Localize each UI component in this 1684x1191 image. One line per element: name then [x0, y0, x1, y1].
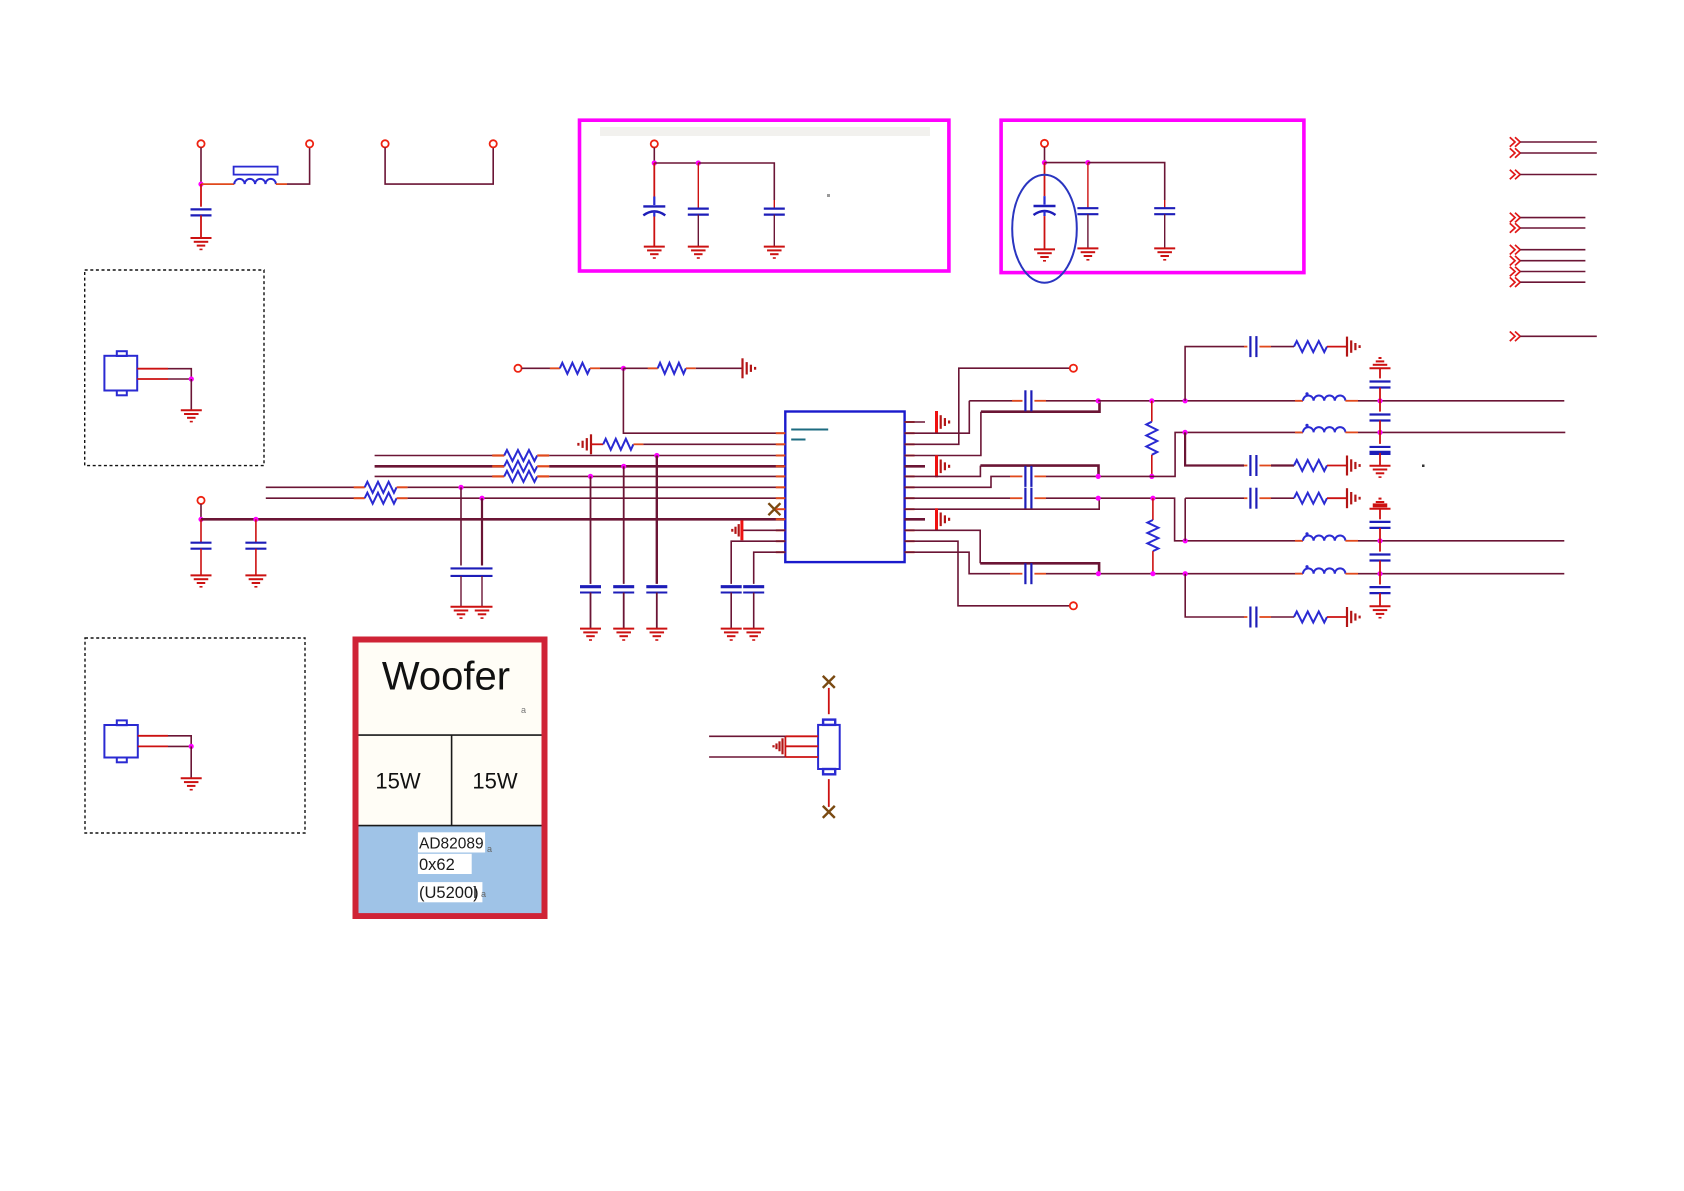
capacitor CB3	[1370, 586, 1391, 588]
IC label line	[791, 439, 805, 441]
ground	[646, 628, 667, 630]
chassis ground	[741, 358, 743, 378]
wire	[1520, 249, 1585, 251]
wire	[375, 475, 505, 477]
wire	[643, 443, 785, 445]
chassis ground	[935, 455, 938, 477]
node junction	[1377, 430, 1382, 435]
capacitor CA2	[1370, 413, 1391, 415]
wire	[905, 498, 1100, 509]
wire	[1088, 163, 1165, 200]
wire	[742, 529, 785, 531]
load resistor RB lead	[1152, 498, 1154, 520]
resistor R2	[648, 367, 658, 369]
wire	[375, 465, 505, 468]
lead	[1034, 400, 1046, 402]
no-connect X	[823, 806, 835, 818]
bootstrap capacitor CB-	[1024, 563, 1026, 584]
lead	[1327, 616, 1347, 618]
ground	[451, 606, 472, 608]
lead	[1327, 497, 1347, 499]
svg-text:(U5200): (U5200)	[419, 884, 479, 902]
ground	[644, 246, 665, 248]
wire	[1046, 475, 1098, 477]
wire OUTA+ node	[1098, 400, 1303, 402]
wire	[709, 735, 785, 737]
wire	[905, 497, 1010, 499]
wire	[623, 367, 657, 369]
wire	[266, 497, 365, 499]
snubber capacitor	[1249, 336, 1251, 357]
inductor LA-	[1303, 427, 1345, 432]
wire	[905, 368, 1070, 444]
wire	[190, 746, 192, 778]
wire	[1271, 497, 1294, 499]
bootstrap capacitor CB- lead	[1010, 573, 1022, 575]
wire	[773, 215, 775, 247]
inductor LA- lead	[1295, 431, 1303, 433]
lead	[1152, 551, 1154, 574]
wire	[1358, 573, 1564, 575]
chassis ground	[1346, 337, 1348, 357]
wire	[623, 368, 785, 433]
resistor R8	[354, 497, 365, 499]
snubber cap lead	[1244, 346, 1247, 348]
wire	[905, 530, 981, 563]
chassis ground	[590, 434, 592, 454]
wire	[1520, 281, 1585, 283]
wire	[1087, 214, 1089, 248]
table line	[451, 735, 453, 826]
node junction	[1183, 571, 1188, 576]
node junction OUTB-	[1096, 571, 1101, 576]
connector enclosure (dashed)	[85, 270, 264, 466]
svg-text:15W: 15W	[375, 769, 420, 794]
ground	[181, 777, 202, 779]
wire	[287, 147, 310, 184]
wire OUTB+ node	[1098, 498, 1303, 541]
snubber capacitor	[1249, 455, 1251, 476]
wire	[1046, 573, 1098, 575]
wire	[656, 593, 658, 629]
snubber capacitor	[1249, 488, 1251, 509]
svg-text:0x62: 0x62	[419, 856, 455, 874]
off-page connector chevron	[1510, 267, 1515, 277]
lead	[1345, 400, 1358, 402]
wire	[1271, 616, 1294, 618]
bootstrap capacitor lead	[1010, 475, 1022, 477]
wire	[549, 455, 785, 457]
no-connect X	[768, 503, 780, 515]
node junction	[696, 160, 701, 165]
ground	[721, 628, 742, 630]
capacitor C10	[451, 567, 472, 569]
node junction	[1377, 571, 1382, 576]
wire	[1520, 335, 1597, 337]
wire	[1044, 147, 1046, 163]
terminal P1	[197, 140, 204, 147]
wire	[1379, 574, 1381, 585]
ground	[1077, 247, 1098, 249]
wire	[653, 211, 655, 217]
wire	[1358, 540, 1564, 542]
wire	[1520, 217, 1585, 219]
node junction	[1377, 398, 1382, 403]
wire	[408, 497, 786, 499]
inductor LA+	[1303, 395, 1345, 400]
snubber resistor	[1294, 341, 1327, 352]
resistor R1	[550, 367, 560, 369]
capacitor CB2	[1370, 553, 1391, 555]
wire	[481, 498, 483, 565]
lead	[1151, 455, 1153, 477]
wire	[1379, 401, 1381, 412]
lead	[1259, 346, 1271, 348]
capacitor C2 (polarized) lead	[653, 163, 655, 197]
capacitor C6	[1077, 207, 1098, 209]
snubber resistor	[1294, 460, 1327, 471]
wire	[905, 465, 925, 468]
wire	[905, 476, 1010, 487]
capacitor C6 lead	[1087, 163, 1089, 209]
capacitor C5 plus plate	[1034, 205, 1056, 207]
resistor R4	[492, 454, 504, 456]
svg-text:AD82089: AD82089	[419, 835, 484, 852]
off-page connector chevron	[1510, 213, 1515, 223]
terminal P6	[1041, 140, 1048, 147]
ground	[688, 246, 709, 248]
pin wire	[138, 735, 168, 737]
wire	[1520, 271, 1585, 273]
inductor LB+	[1303, 536, 1345, 541]
wire	[1379, 593, 1381, 606]
capacitor	[580, 585, 601, 588]
wire	[1379, 541, 1381, 552]
ground	[580, 628, 601, 630]
wire	[590, 476, 592, 584]
ground	[191, 574, 212, 576]
capacitor C7	[1154, 207, 1175, 209]
ground	[472, 606, 493, 608]
node junction	[189, 376, 194, 381]
wire	[481, 576, 483, 607]
connector J1 body	[104, 356, 137, 391]
wire	[1046, 400, 1098, 402]
wire	[656, 456, 658, 584]
connector J2 body	[104, 725, 137, 758]
chassis ground	[1346, 488, 1348, 508]
pin wire	[785, 735, 818, 737]
wire OUTA-	[980, 466, 1098, 477]
power bus wire	[201, 518, 785, 521]
IC right pin stubs	[905, 421, 915, 423]
wire OUTA+	[981, 401, 1100, 412]
node junction	[652, 160, 657, 165]
wire	[1520, 260, 1585, 262]
wire	[905, 552, 1010, 574]
resistor R3	[603, 439, 633, 450]
off-page connector chevron	[1510, 137, 1515, 147]
wire	[1379, 368, 1381, 378]
wire	[697, 215, 699, 247]
ground	[1154, 247, 1175, 249]
pin wire	[137, 378, 168, 380]
wire	[654, 162, 698, 164]
terminal P9	[1070, 365, 1077, 372]
node junction	[1042, 160, 1047, 165]
node junction	[458, 485, 463, 490]
node junction	[198, 517, 203, 522]
snubber resistor	[1294, 612, 1327, 623]
snubber cap lead	[1244, 497, 1247, 499]
chassis ground	[935, 411, 938, 433]
wire	[623, 466, 625, 584]
lead	[1259, 616, 1271, 618]
wire	[696, 367, 743, 369]
wire	[905, 412, 981, 456]
wire	[905, 541, 1070, 606]
node junction	[1150, 571, 1155, 576]
pin wire	[138, 745, 168, 747]
lead	[1345, 431, 1358, 433]
load resistor RA	[1146, 422, 1157, 455]
wire	[460, 487, 462, 565]
wire	[653, 148, 655, 164]
wire	[255, 549, 257, 576]
chassis ground up (polarized)	[1370, 508, 1391, 510]
inductor LB-	[1303, 568, 1345, 573]
chassis ground	[1346, 607, 1348, 627]
node junction	[654, 453, 659, 458]
snubber cap lead	[1244, 616, 1247, 618]
pin wire	[785, 745, 818, 747]
off-page connector chevron	[1510, 332, 1515, 342]
wire	[385, 147, 493, 184]
load resistor RB	[1147, 520, 1158, 551]
bootstrap capacitor CA-	[1024, 466, 1026, 487]
snubber capacitor	[1249, 607, 1251, 628]
wire	[905, 421, 925, 423]
node junction	[1183, 398, 1188, 403]
label 0x62	[418, 854, 472, 874]
ground	[245, 574, 266, 576]
terminal P4	[490, 140, 497, 147]
off-page connector chevron	[1510, 170, 1515, 180]
wire	[168, 736, 191, 747]
table line	[359, 825, 542, 827]
mark	[474, 886, 476, 898]
terminal P7	[514, 365, 521, 372]
faint watermark text	[600, 127, 930, 136]
wire	[600, 367, 623, 369]
bootstrap capacitor CB+	[1024, 488, 1026, 509]
ground	[764, 246, 785, 248]
snubber wire	[1185, 497, 1244, 499]
wire	[549, 475, 785, 477]
wire	[1358, 431, 1565, 433]
wire	[168, 378, 191, 380]
wire	[200, 504, 202, 519]
chassis ground	[781, 738, 783, 754]
lead	[1345, 573, 1358, 575]
node junction	[198, 182, 203, 187]
ground	[1370, 465, 1391, 467]
wire	[1520, 174, 1597, 176]
highlight box (magenta)	[1001, 120, 1304, 272]
capacitor C1	[191, 208, 212, 210]
capacitor C13	[743, 585, 764, 588]
IC label line	[791, 429, 828, 431]
table line	[359, 734, 542, 736]
highlight box (magenta)	[580, 120, 949, 271]
wire	[731, 541, 785, 584]
inductor L1 body box	[234, 167, 278, 175]
speck	[827, 194, 830, 197]
terminal P8	[197, 497, 204, 504]
wire	[828, 779, 830, 807]
resistor R5	[492, 465, 504, 467]
capacitor C4 lead	[773, 200, 775, 209]
node junction	[479, 496, 484, 501]
woofer info table	[356, 640, 545, 917]
capacitor CA1	[1370, 380, 1391, 382]
node junction	[1149, 474, 1154, 479]
wire	[1379, 453, 1381, 466]
node junction	[621, 464, 626, 469]
bootstrap capacitor CA+	[1024, 390, 1026, 411]
capacitor C9 lead	[255, 519, 257, 542]
wire	[266, 486, 365, 488]
snubber wire	[1185, 347, 1244, 401]
capacitor C8 lead	[200, 519, 202, 542]
chassis ground	[935, 508, 938, 530]
pin wire	[785, 756, 818, 758]
lead	[1345, 540, 1358, 542]
capacitor C2 plus plate	[643, 205, 665, 207]
snubber wire	[1185, 432, 1244, 465]
wire	[460, 576, 462, 607]
terminal P5	[651, 140, 658, 147]
IC U5200 body	[785, 412, 904, 563]
capacitor C11	[472, 567, 493, 569]
wire	[1379, 432, 1381, 444]
wire	[709, 756, 785, 758]
node junction	[1149, 398, 1154, 403]
wire	[1358, 400, 1564, 402]
off-page connector chevron	[1510, 148, 1515, 158]
wire	[1043, 211, 1045, 217]
wire OUTB- node	[1098, 573, 1303, 575]
wire	[1379, 421, 1381, 433]
terminal P2	[306, 140, 313, 147]
wire OUTA- node	[1098, 432, 1303, 476]
lead	[1259, 465, 1271, 467]
resistor R7	[354, 486, 365, 488]
node junction	[621, 366, 626, 371]
wire	[168, 745, 191, 747]
lead	[1259, 497, 1271, 499]
capacitor C1 lead	[200, 184, 202, 207]
wire	[375, 455, 505, 457]
bootstrap capacitor CA+ lead	[969, 400, 1022, 402]
label AD82089	[418, 832, 485, 852]
wire	[1520, 152, 1597, 154]
ground	[191, 237, 212, 239]
wire	[698, 163, 774, 200]
no-connect X	[823, 676, 835, 688]
capacitor C7 lead	[1164, 200, 1166, 208]
wire	[1520, 227, 1585, 229]
snubber wire	[1185, 574, 1244, 617]
wire	[1046, 497, 1098, 499]
capacitor C3 lead	[697, 163, 699, 209]
node junction	[1183, 430, 1188, 435]
terminal P3	[382, 140, 389, 147]
wire	[753, 593, 755, 629]
wire	[1271, 346, 1294, 348]
inductor LB- lead	[1295, 573, 1303, 575]
ground	[613, 628, 634, 630]
resistor R6	[492, 475, 504, 477]
wire OUTB-	[980, 563, 1099, 573]
chassis ground	[1346, 456, 1348, 476]
wire	[1271, 464, 1294, 466]
node junction	[1183, 538, 1188, 543]
lead	[1034, 497, 1046, 499]
off-page connector chevron	[1510, 245, 1515, 255]
wire	[200, 549, 202, 576]
ground	[1370, 605, 1391, 607]
svg-text:a: a	[521, 705, 526, 715]
wire	[1379, 388, 1381, 401]
inductor LA+ lead	[1295, 400, 1303, 402]
highlight ellipse (blue)	[1012, 175, 1077, 283]
lead	[1034, 573, 1046, 575]
wire	[590, 593, 592, 629]
wire	[591, 443, 603, 445]
wire	[754, 552, 786, 584]
connector enclosure (dashed)	[85, 638, 305, 833]
wire	[623, 593, 625, 629]
wire	[1379, 509, 1381, 520]
off-page connector chevron	[1510, 223, 1515, 233]
ground	[743, 628, 764, 630]
capacitor CB1	[1370, 521, 1391, 523]
node junction OUTA-	[1096, 474, 1101, 479]
wire	[905, 401, 970, 433]
svg-text:Woofer: Woofer	[382, 654, 510, 698]
node junction	[588, 474, 593, 479]
chassis ground	[740, 520, 743, 540]
node junction	[1377, 538, 1382, 543]
wire	[828, 688, 830, 714]
ground	[1034, 248, 1055, 250]
lead	[1327, 346, 1347, 348]
node junction	[1150, 496, 1155, 501]
node junction OUTB+	[1096, 496, 1101, 501]
wire	[276, 183, 287, 185]
capacitor C4	[764, 208, 785, 210]
snubber cap lead	[1244, 465, 1247, 467]
wire	[190, 379, 192, 410]
capacitor C8	[191, 542, 212, 544]
IC left pin stubs	[776, 432, 786, 434]
wire	[200, 147, 202, 184]
node junction	[189, 744, 194, 749]
wire	[1379, 528, 1381, 541]
pin wire	[137, 368, 168, 370]
wire	[1045, 162, 1088, 164]
